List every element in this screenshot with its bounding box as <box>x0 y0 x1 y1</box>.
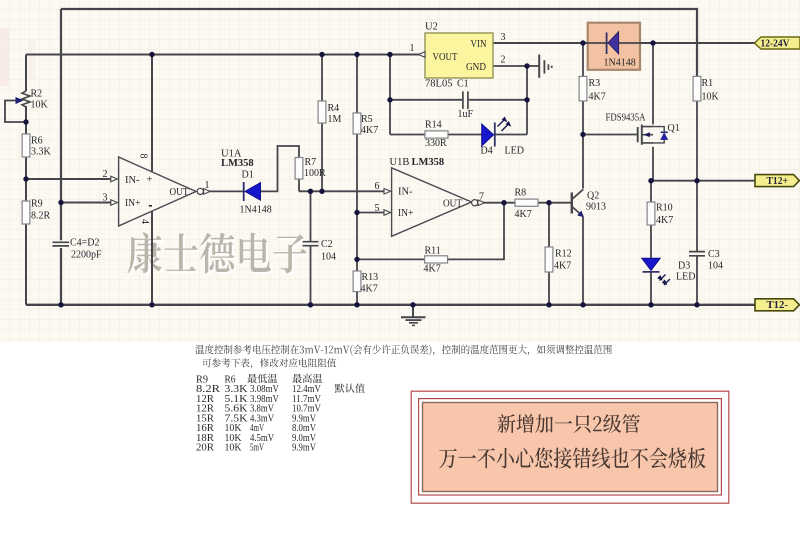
wire C1 row left <box>390 99 462 101</box>
svg-text:VIN: VIN <box>471 39 487 50</box>
wire C3 column bottom <box>696 257 698 305</box>
wire U1A power top <box>151 55 153 172</box>
LED D3 <box>642 258 696 285</box>
svg-text:5: 5 <box>375 203 380 214</box>
wire Q2 collector riser <box>582 135 584 189</box>
svg-text:100R: 100R <box>304 168 326 179</box>
note line 1 <box>195 345 611 356</box>
svg-text:330R: 330R <box>425 138 447 149</box>
junction B2 <box>23 176 28 181</box>
wire pin5 wire <box>357 212 385 214</box>
wire R5 column top <box>356 55 358 114</box>
wire Q1 gate wire <box>583 134 637 136</box>
svg-text:12-24V: 12-24V <box>761 39 791 50</box>
wire Q2 emitter drop <box>582 217 584 305</box>
resistor R13 <box>353 271 378 295</box>
wire left column R6 to R9 <box>25 157 27 201</box>
wire left column R2 bottom to R6 <box>25 106 27 134</box>
svg-text:R14: R14 <box>425 120 442 131</box>
wire top rail <box>61 9 697 76</box>
resistor R3 <box>579 76 606 102</box>
highlight box around 1N4148 <box>588 23 640 70</box>
wire R12 column bottom <box>548 272 550 305</box>
note text line 1 <box>498 414 640 433</box>
junction H1 <box>580 40 585 45</box>
junction J1 <box>58 302 63 307</box>
junction E1 <box>308 189 313 194</box>
svg-text:FDS9435A: FDS9435A <box>606 113 647 124</box>
svg-text:LED: LED <box>676 272 695 283</box>
resistor R5 <box>353 113 378 136</box>
resistor R8 body <box>515 199 538 206</box>
svg-text:4K7: 4K7 <box>515 209 532 220</box>
wire U1A out wire <box>210 190 243 192</box>
wire R13 lead top <box>356 259 358 271</box>
junction E2 <box>319 189 324 194</box>
resistor R4 <box>318 101 341 125</box>
svg-text:2: 2 <box>103 169 108 180</box>
wire sense column x61 lower <box>60 248 62 305</box>
svg-text:10K: 10K <box>225 443 243 454</box>
capacitor C4 <box>53 238 103 261</box>
wire C1 gnd column <box>526 66 528 135</box>
junction A2 <box>319 52 324 57</box>
svg-text:LED: LED <box>505 146 524 157</box>
wire R10 column top <box>650 181 652 202</box>
svg-text:8.2R: 8.2R <box>31 211 51 222</box>
wire R11 row <box>357 258 425 260</box>
wire T12+ row <box>651 180 755 182</box>
LED D4 <box>481 117 524 157</box>
wire C1 row right <box>469 99 527 101</box>
wire R4 column top <box>321 55 323 102</box>
capacitor C1 <box>457 79 474 121</box>
svg-text:IN-: IN- <box>398 187 413 198</box>
junction I2 <box>694 178 699 183</box>
wire left column R9 to rail <box>25 224 27 305</box>
capacitor C3 <box>689 249 723 272</box>
svg-text:R3: R3 <box>589 78 601 89</box>
svg-text:1uF: 1uF <box>458 109 474 120</box>
wire U1A power bottom <box>151 211 153 305</box>
wire R3 column bottom <box>582 101 584 135</box>
svg-text:R5: R5 <box>361 114 373 125</box>
junction D2j <box>524 97 529 102</box>
port T12+ <box>755 175 799 187</box>
wire R10 to D3 <box>650 225 652 258</box>
svg-text:104: 104 <box>708 261 723 272</box>
wire D1 to R7 riser <box>261 146 300 191</box>
svg-text:104: 104 <box>321 252 336 263</box>
svg-text:R11: R11 <box>425 246 441 257</box>
svg-text:LM358: LM358 <box>412 157 445 168</box>
wire sense column x61 upper <box>60 9 62 240</box>
wire bottom ground rail <box>26 304 755 306</box>
ground (U2 GND pin) <box>539 55 552 78</box>
svg-text:4K7: 4K7 <box>361 284 378 295</box>
resistor R7 <box>295 157 326 179</box>
resistor R1 <box>693 76 719 102</box>
svg-text:4K7: 4K7 <box>424 264 441 275</box>
wire R1 bottom lead <box>696 101 698 181</box>
junction J3 <box>308 302 313 307</box>
pin marker U1B pin5 <box>384 210 391 216</box>
junction J5 <box>410 302 415 307</box>
svg-text:VOUT: VOUT <box>433 52 458 63</box>
wire left column R2-R6-R9 <box>25 55 27 92</box>
resistor R6 <box>22 134 51 158</box>
svg-text:9.9mV: 9.9mV <box>292 443 317 454</box>
junction A1 <box>149 52 154 57</box>
junction B1 <box>23 119 28 124</box>
svg-text:7: 7 <box>479 192 484 203</box>
pin marker U1A pin1 <box>204 189 211 195</box>
svg-text:R6: R6 <box>31 136 43 147</box>
pin marker U1A pin3 <box>111 200 118 206</box>
svg-text:4K7: 4K7 <box>554 261 571 272</box>
regulator U2 78L05 <box>425 22 493 90</box>
wire R13 lead bottom <box>356 292 358 305</box>
junction C1j <box>58 200 63 205</box>
junction J9 <box>694 302 699 307</box>
MOSFET Q1 FDS9435A <box>606 113 680 145</box>
port 12-24V <box>755 37 800 50</box>
wire C2 column top <box>310 191 312 241</box>
junction A3 <box>354 52 359 57</box>
svg-text:D3: D3 <box>678 261 690 272</box>
wire R4 column bottom <box>321 123 323 191</box>
svg-text:D1: D1 <box>242 170 254 181</box>
svg-text:R2: R2 <box>31 89 43 100</box>
svg-text:R4: R4 <box>328 103 340 114</box>
diode D5 1N4148 (in highlight box) <box>583 32 653 69</box>
svg-text:1M: 1M <box>328 114 342 125</box>
svg-text:R7: R7 <box>305 157 317 168</box>
svg-text:IN+: IN+ <box>125 198 141 209</box>
wire R5 column mid <box>356 134 358 259</box>
junction D3j <box>524 63 529 68</box>
junction J2 <box>149 302 154 307</box>
wire R11 to feedback riser <box>448 203 505 260</box>
resistor R10 <box>647 202 673 226</box>
junction J8 <box>648 302 653 307</box>
svg-text:IN+: IN+ <box>398 208 414 219</box>
svg-text:T12+: T12+ <box>767 176 789 187</box>
svg-text:4: 4 <box>139 219 150 224</box>
svg-text:4K7: 4K7 <box>656 215 673 226</box>
svg-text:3: 3 <box>103 193 108 204</box>
transistor Q2 9013 <box>572 189 606 217</box>
diode D1 1N4148 <box>240 170 272 216</box>
wire 12-24V supply wire <box>493 42 755 44</box>
pin marker U2 pin1 <box>418 52 425 58</box>
svg-text:2: 2 <box>501 55 506 66</box>
wire R3 column top <box>582 43 584 76</box>
resistor R12 <box>545 247 572 272</box>
junction G2 <box>546 200 551 205</box>
pink note box <box>411 391 729 503</box>
resistor R9 <box>22 199 50 225</box>
svg-text:R1: R1 <box>702 78 714 89</box>
resistor R14 body <box>425 131 448 138</box>
svg-text:20R: 20R <box>196 443 214 454</box>
junction J6 <box>546 302 551 307</box>
junction I1 <box>648 178 653 183</box>
svg-text:4K7: 4K7 <box>361 125 378 136</box>
junction J4 <box>354 302 359 307</box>
wire R14 row left <box>390 134 425 136</box>
svg-text:3: 3 <box>501 32 506 43</box>
wire R14 to D4 <box>448 134 482 136</box>
junction H2 <box>650 40 655 45</box>
svg-text:4K7: 4K7 <box>589 92 606 103</box>
svg-text:LM358: LM358 <box>221 158 254 169</box>
wire pin6 wire <box>299 190 385 192</box>
op-amp U1B <box>390 157 478 236</box>
default-value label <box>335 384 365 393</box>
junction F1 <box>354 210 359 215</box>
pin marker U1B pin7 <box>478 200 485 206</box>
wire Q1 source column <box>652 43 654 125</box>
wire pin2 wire <box>26 178 111 180</box>
port T12- <box>755 299 799 311</box>
pin marker U1A pin2 <box>111 176 118 182</box>
svg-text:C3: C3 <box>708 249 720 260</box>
svg-text:C2: C2 <box>321 239 333 250</box>
wire U1B out wire <box>481 202 515 204</box>
junction F2 <box>354 257 359 262</box>
resistor R11 body <box>425 256 448 263</box>
svg-text:OUT: OUT <box>443 199 463 210</box>
svg-text:T12-: T12- <box>767 300 789 311</box>
note line 2 <box>202 358 336 368</box>
wire U2 gnd pin wire <box>493 65 539 67</box>
wire U2 vout column <box>389 55 391 135</box>
svg-text:1N4148: 1N4148 <box>604 58 636 69</box>
svg-text:R12: R12 <box>555 249 572 260</box>
wire Q1 drain column <box>652 147 654 181</box>
wire D3 to rail <box>650 273 652 305</box>
potentiometer R2 <box>16 89 49 111</box>
wire C2 column bottom <box>310 246 312 305</box>
svg-text:1: 1 <box>410 43 415 54</box>
wire pin3 wire <box>61 202 111 204</box>
svg-text:3.3K: 3.3K <box>31 147 52 158</box>
svg-text:R10: R10 <box>656 203 673 214</box>
svg-text:9013: 9013 <box>586 202 606 213</box>
capacitor C2 <box>303 239 337 263</box>
wire R8 to Q2 base <box>538 202 571 204</box>
wire D4 cathode to gnd column <box>495 134 527 136</box>
junction J7 <box>580 302 585 307</box>
junction H3 <box>580 132 585 137</box>
svg-text:R9: R9 <box>31 199 43 210</box>
watermark 康士德电子 <box>128 232 309 275</box>
svg-text:1N4148: 1N4148 <box>240 205 272 216</box>
junction D1j <box>387 97 392 102</box>
svg-text:78L05: 78L05 <box>425 79 453 90</box>
svg-text:Q1: Q1 <box>668 123 680 134</box>
svg-text:OUT: OUT <box>170 187 190 198</box>
svg-text:+: + <box>147 175 153 186</box>
junction A4 <box>387 52 392 57</box>
ground (bottom rail) <box>401 305 426 326</box>
pin marker U1B pin6 <box>384 189 391 195</box>
note text line 2 <box>439 448 705 469</box>
wire wiper return <box>5 101 26 123</box>
svg-text:10K: 10K <box>31 100 49 111</box>
svg-text:D4: D4 <box>481 146 493 157</box>
svg-text:8: 8 <box>138 154 149 159</box>
svg-text:R13: R13 <box>362 272 379 283</box>
svg-text:IN-: IN- <box>125 175 140 186</box>
junction G1 <box>501 200 506 205</box>
svg-text:6: 6 <box>375 181 380 192</box>
svg-text:C1: C1 <box>457 79 469 90</box>
svg-text:U2: U2 <box>425 22 438 33</box>
svg-text:1: 1 <box>205 180 210 191</box>
svg-text:Q2: Q2 <box>587 191 599 202</box>
svg-text:10K: 10K <box>702 92 720 103</box>
wire C3 column top <box>696 181 698 252</box>
svg-text:5mV: 5mV <box>250 443 265 454</box>
op-amp U1A <box>119 149 254 227</box>
svg-text:2200pF: 2200pF <box>71 250 102 261</box>
wire 5V rail <box>26 54 420 56</box>
svg-text:R8: R8 <box>515 188 527 199</box>
wire R12 column top <box>548 203 550 247</box>
svg-text:GND: GND <box>466 62 486 73</box>
svg-text:U1B: U1B <box>390 157 410 168</box>
svg-text:C4=D2: C4=D2 <box>70 238 100 249</box>
wire R7 bottom lead <box>298 179 300 191</box>
schematic sheet <box>0 0 800 342</box>
